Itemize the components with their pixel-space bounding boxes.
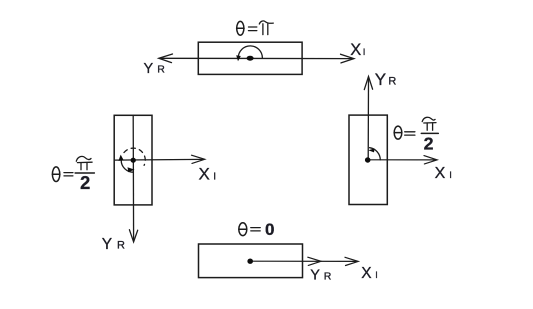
svg-text:X: X	[361, 265, 372, 282]
svg-text:X: X	[199, 164, 210, 183]
svg-text:2: 2	[80, 172, 90, 193]
svg-text:I: I	[375, 270, 378, 280]
svg-text:X: X	[435, 165, 446, 182]
svg-text:I: I	[449, 170, 452, 181]
svg-text:R: R	[324, 271, 332, 283]
svg-text:R: R	[117, 240, 125, 252]
svg-text:X: X	[350, 41, 361, 59]
svg-text:Y: Y	[375, 70, 386, 89]
svg-text:R: R	[157, 64, 165, 76]
svg-text:0: 0	[265, 220, 274, 239]
svg-text:R: R	[388, 76, 396, 88]
svg-text:I: I	[213, 172, 216, 183]
svg-text:Y: Y	[310, 268, 320, 284]
svg-text:2: 2	[424, 134, 434, 154]
svg-text:Y: Y	[144, 61, 154, 77]
svg-text:I: I	[363, 47, 366, 58]
svg-text:Y: Y	[102, 236, 112, 253]
